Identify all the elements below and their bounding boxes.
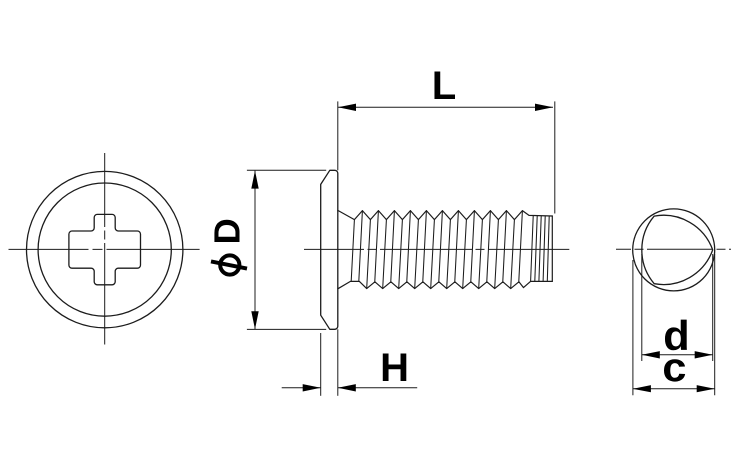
dimension L line (338, 106, 553, 108)
thread flank lines (351, 220, 354, 281)
dimension H extension lines (321, 329, 338, 396)
dimension d line (642, 354, 713, 356)
dimension L extension lines (338, 101, 555, 213)
head side outline (wafer head with chamfer) (321, 170, 338, 329)
screw axis centerline (304, 248, 569, 250)
dimension L arrowheads (338, 104, 553, 111)
dimension d extension lines (642, 254, 713, 361)
dimension c label (664, 359, 685, 381)
dimension H line and arrowheads (282, 387, 418, 389)
dimension phiD label: phi symbol (211, 255, 247, 274)
dimension phiD label: D (214, 220, 239, 242)
phillips recess cross (69, 214, 141, 284)
thread crest bottom zigzag (338, 281, 553, 288)
end view circle c (633, 209, 715, 291)
dimension H label (383, 353, 407, 381)
end view centerline (616, 248, 731, 250)
front view head outer circle (27, 171, 183, 327)
dimension c line (633, 388, 715, 390)
dimension phiD extension lines (247, 170, 326, 329)
front view horizontal centerline (9, 248, 200, 250)
thread crest top zigzag (338, 210, 553, 219)
dimension phiD arrowheads (251, 171, 258, 330)
dimension c arrowheads (633, 385, 715, 392)
screw end face (551, 216, 553, 281)
dimension L label (434, 71, 455, 99)
dimension phiD line (254, 171, 256, 330)
trilobular thread cross-section (642, 215, 713, 284)
dimension c extension lines (633, 254, 715, 395)
dimension d arrowheads (642, 351, 713, 358)
front view head inner circle (38, 183, 171, 316)
thread runout fade lines at screw point (531, 216, 534, 281)
dimension d label (665, 320, 687, 351)
front view vertical centerline (104, 153, 106, 345)
